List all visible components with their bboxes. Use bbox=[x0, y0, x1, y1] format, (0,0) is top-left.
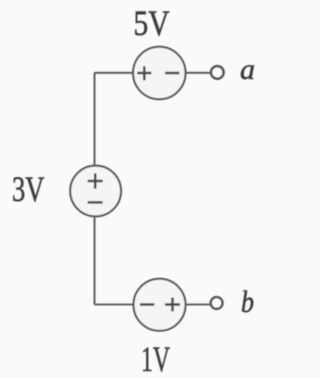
svg-text:5V: 5V bbox=[134, 3, 170, 43]
svg-text:3V: 3V bbox=[12, 169, 45, 209]
svg-text:a: a bbox=[240, 53, 255, 86]
svg-text:1V: 1V bbox=[141, 339, 170, 378]
svg-text:b: b bbox=[241, 284, 254, 319]
